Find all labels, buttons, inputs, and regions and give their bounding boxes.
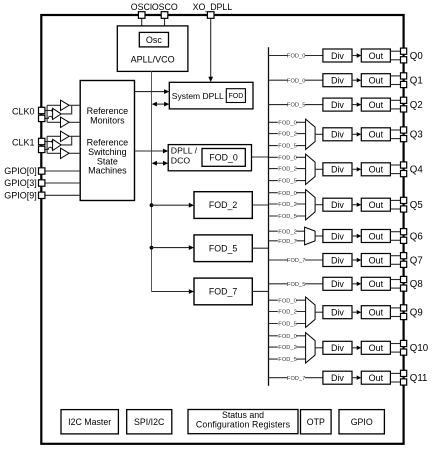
svg-text:Div: Div — [331, 165, 344, 175]
pin Q0+ — [401, 48, 407, 54]
Out box Q5 — [361, 198, 390, 211]
svg-text:FOD_7: FOD_7 — [287, 376, 306, 382]
wire Div to Out Q8 — [352, 283, 357, 285]
svg-text:Div: Div — [331, 231, 344, 241]
pin GPIO[0] — [39, 168, 45, 174]
wire input routing outline — [47, 105, 60, 122]
svg-text:FOD_2: FOD_2 — [278, 310, 297, 316]
pin OSCO — [161, 12, 168, 19]
pin Q1+ — [401, 73, 407, 79]
pin GPIO[3] — [39, 180, 45, 186]
wire Q10 mux input FOD_2 — [269, 346, 306, 348]
Div box Q8 — [323, 277, 352, 290]
wire CLK pin+ to buffers — [45, 141, 53, 143]
wire FOD_5 to bus — [252, 247, 268, 249]
svg-text:Q6: Q6 — [410, 231, 423, 242]
wire FOD_2 to bus — [252, 204, 268, 206]
wire bidirectional DPLL/DCO — [154, 162, 164, 164]
svg-text:Div: Div — [331, 279, 344, 289]
svg-text:Q7: Q7 — [410, 255, 423, 266]
Div box Q6 — [323, 230, 352, 243]
svg-text:Out: Out — [369, 200, 384, 210]
wire reference to DPLL/DCO — [135, 150, 164, 152]
wire Q4 mux input FOD_2 — [269, 168, 306, 170]
pin Q10+ — [401, 340, 407, 346]
pin Q5+ — [401, 197, 407, 203]
wire Out to pins Q9 — [390, 307, 400, 309]
svg-text:FOD_0: FOD_0 — [278, 155, 297, 161]
svg-text:FOD_7: FOD_7 — [209, 287, 237, 297]
wire reference to System DPLL — [135, 91, 165, 93]
svg-text:Div: Div — [331, 100, 344, 110]
pin XO_DPLL — [207, 12, 214, 19]
pin GPIO[9] — [39, 192, 45, 198]
wire top buffer out — [69, 104, 80, 106]
wire Div to Out Q1 — [352, 79, 357, 81]
Div box Q2 — [323, 98, 352, 111]
wire APLL output vertical — [151, 71, 153, 291]
svg-text:Out: Out — [369, 100, 384, 110]
svg-text:Out: Out — [369, 373, 384, 383]
net label FOD_7 for Q6 — [278, 237, 297, 244]
Div box Q11 — [323, 371, 352, 384]
net label FOD_0 for Q1 — [288, 77, 306, 84]
wire Out to pins Q3 — [390, 129, 400, 131]
OTP box — [301, 410, 332, 434]
svg-text:Q2: Q2 — [410, 100, 423, 111]
wire top buffer out — [69, 135, 80, 137]
pin Q11+ — [401, 370, 407, 376]
net label FOD_0 for Q4 — [278, 154, 297, 161]
svg-text:FOD_2: FOD_2 — [278, 202, 297, 208]
buffer triangle middle — [53, 139, 62, 150]
pin Q4+ — [401, 162, 407, 168]
wire GPIO[0] — [45, 170, 81, 172]
net label FOD_2 for Q3 — [278, 130, 297, 137]
svg-text:GPIO: GPIO — [351, 417, 373, 427]
svg-text:OSCI: OSCI — [131, 2, 153, 12]
wire Q0 source — [269, 55, 323, 57]
Out box Q8 — [361, 277, 390, 290]
wire mux Q5 to Div — [315, 204, 323, 206]
Div box Q0 — [323, 49, 352, 62]
wire GPIO[9] — [45, 194, 81, 196]
svg-text:FOD_0: FOD_0 — [278, 120, 297, 126]
svg-text:Q8: Q8 — [410, 279, 423, 290]
wire Div to Out Q10 — [352, 347, 357, 349]
wire Q8 source — [269, 283, 323, 285]
svg-text:Div: Div — [331, 373, 344, 383]
svg-text:FOD_0: FOD_0 — [278, 298, 297, 304]
mux Q6 — [305, 227, 316, 245]
pin Q8+ — [401, 276, 407, 282]
wire Q4 mux input FOD_5 — [269, 180, 306, 182]
GPIO box — [339, 410, 384, 434]
wire Out to pins Q1 — [390, 75, 400, 77]
Div box Q1 — [323, 74, 352, 87]
wire Out to pins Q11 — [390, 372, 400, 374]
wire branch to FOD_2 — [152, 204, 190, 206]
wire FOD distribution bus — [268, 47, 270, 386]
svg-text:Div: Div — [331, 130, 344, 140]
Div box Q10 — [323, 341, 352, 354]
Out box Q4 — [361, 163, 390, 176]
pin Q11- — [401, 379, 407, 385]
svg-text:DCO: DCO — [171, 155, 191, 165]
svg-text:FOD_7: FOD_7 — [278, 239, 297, 245]
wire Q10 mux input FOD_5 — [269, 358, 306, 360]
wire Out to pins Q7 — [390, 255, 400, 257]
Out box Q3 — [361, 128, 390, 141]
wire bidirectional System DPLL — [154, 103, 165, 105]
svg-text:FOD_0: FOD_0 — [287, 78, 306, 84]
wire mux Q3 to Div — [315, 133, 323, 135]
svg-text:APLL/VCO: APLL/VCO — [131, 54, 175, 64]
svg-text:Out: Out — [369, 231, 384, 241]
svg-text:Div: Div — [331, 308, 344, 318]
wire Q5 mux input FOD_2 — [269, 203, 306, 205]
Out box Q6 — [361, 230, 390, 243]
svg-text:Q5: Q5 — [410, 200, 423, 211]
pin Q6- — [401, 237, 407, 243]
svg-text:Q10: Q10 — [410, 343, 429, 354]
wire Q10 mux input FOD_0 — [269, 335, 306, 337]
svg-text:OSCO: OSCO — [152, 2, 178, 12]
net label FOD_7 for Q11 — [288, 374, 306, 381]
svg-text:CLK0: CLK0 — [12, 106, 35, 116]
junction dot FOD_2 branch — [150, 203, 154, 207]
svg-text:FOD: FOD — [229, 93, 244, 100]
pin Q2+ — [401, 97, 407, 103]
Div box Q5 — [323, 198, 352, 211]
buffer triangle top — [61, 131, 70, 141]
svg-text:Monitors: Monitors — [90, 116, 125, 126]
svg-text:Configuration Registers: Configuration Registers — [196, 419, 291, 429]
svg-text:Out: Out — [369, 279, 384, 289]
FOD_2 box — [194, 192, 252, 219]
Out box Q7 — [361, 254, 390, 267]
svg-text:FOD_2: FOD_2 — [209, 200, 237, 210]
net label FOD_0 for Q9 — [278, 297, 297, 304]
svg-text:GPIO[0]: GPIO[0] — [4, 166, 37, 176]
svg-text:Div: Div — [331, 343, 344, 353]
buffer triangle top — [61, 100, 70, 110]
svg-text:FOD_0: FOD_0 — [209, 152, 237, 162]
wire GPIO[3] — [45, 182, 81, 184]
pin CLK1+ — [39, 138, 45, 144]
wire Out to pins Q6 — [390, 231, 400, 233]
wire Out to pins Q0 — [390, 50, 400, 52]
wire mux Q6 to Div — [315, 235, 323, 237]
wire Q7 source — [269, 259, 323, 261]
wire Q3 mux input FOD_5 — [269, 145, 306, 147]
mux Q5 — [306, 190, 316, 220]
svg-text:GPIO[3]: GPIO[3] — [4, 178, 37, 188]
Out box Q9 — [361, 306, 390, 319]
svg-text:Div: Div — [331, 255, 344, 265]
net label FOD_2 for Q4 — [278, 165, 297, 172]
net label FOD_2 for Q5 — [278, 201, 297, 208]
wire Q3 mux input FOD_2 — [269, 133, 306, 135]
pin Q3+ — [401, 127, 407, 133]
pin Q3- — [401, 136, 407, 142]
wire Div to Out Q3 — [352, 133, 357, 135]
pin Q7+ — [401, 253, 407, 259]
net label FOD_7 for Q7 — [288, 257, 306, 264]
svg-text:FOD_5: FOD_5 — [287, 103, 306, 109]
svg-text:Div: Div — [331, 51, 344, 61]
svg-text:Out: Out — [369, 255, 384, 265]
pin Q8- — [401, 285, 407, 291]
net label FOD_0 for Q10 — [278, 332, 297, 339]
svg-text:I2C Master: I2C Master — [68, 417, 111, 427]
FOD_7 box — [194, 278, 252, 305]
svg-text:Out: Out — [369, 130, 384, 140]
junction dot input — [51, 140, 54, 143]
pin Q4- — [401, 171, 407, 177]
wire XO_DPLL to System DPLL — [210, 18, 212, 81]
APLL/VCO box — [117, 26, 188, 72]
svg-text:FOD_5: FOD_5 — [278, 144, 297, 150]
pin Q7- — [401, 261, 407, 267]
svg-text:FOD_0: FOD_0 — [278, 191, 297, 197]
wire Div to Out Q4 — [352, 168, 357, 170]
mux Q4 — [306, 154, 316, 184]
svg-text:Out: Out — [369, 76, 384, 86]
wire Div to Out Q6 — [352, 235, 357, 237]
mux Q10 — [306, 333, 316, 363]
net label FOD_0 for Q5 — [278, 189, 297, 196]
wire bottom buffer out — [69, 152, 80, 154]
svg-text:FOD_5: FOD_5 — [287, 282, 306, 288]
wire CLK pin- with crossover hop — [45, 116, 53, 118]
svg-text:Div: Div — [331, 200, 344, 210]
pin OSCI — [138, 12, 145, 19]
pin CLK0- — [39, 115, 45, 121]
wire middle buffer out — [61, 105, 71, 114]
svg-text:FOD_7: FOD_7 — [287, 258, 306, 264]
svg-text:Out: Out — [369, 51, 384, 61]
svg-text:Q11: Q11 — [410, 373, 428, 384]
buffer triangle bottom — [61, 117, 70, 127]
wire Q5 mux input FOD_5 — [269, 215, 306, 217]
I2C Master box — [61, 410, 118, 434]
wire FOD_0 to bus — [252, 156, 269, 158]
wire Out to pins Q2 — [390, 99, 400, 101]
Status and Configuration Registers box — [188, 410, 298, 434]
wire Out to pins Q8 — [390, 279, 400, 281]
svg-text:XO_DPLL: XO_DPLL — [193, 2, 233, 12]
pin Q6+ — [401, 229, 407, 235]
Div box Q3 — [323, 128, 352, 141]
svg-text:FOD_5: FOD_5 — [278, 322, 297, 328]
FOD box inside System DPLL — [226, 89, 245, 103]
svg-text:Out: Out — [369, 308, 384, 318]
pin Q9- — [401, 313, 407, 319]
svg-text:Q9: Q9 — [410, 308, 423, 319]
mux Q9 — [306, 297, 316, 327]
svg-text:System DPLL: System DPLL — [172, 91, 224, 101]
net label FOD_5 for Q4 — [278, 177, 297, 184]
svg-text:OTP: OTP — [307, 417, 325, 427]
net label FOD_5 for Q2 — [288, 101, 306, 108]
wire Div to Out Q9 — [352, 311, 357, 313]
svg-text:FOD_5: FOD_5 — [278, 357, 297, 363]
wire input routing outline — [47, 136, 60, 153]
buffer triangle bottom — [61, 148, 70, 158]
pin Q0- — [401, 57, 407, 63]
wire Out to pins Q4 — [390, 164, 400, 166]
svg-text:FOD_0: FOD_0 — [287, 54, 306, 60]
svg-text:CLK1: CLK1 — [12, 137, 35, 147]
Out box Q11 — [361, 371, 390, 384]
System DPLL box — [169, 82, 253, 109]
svg-text:Q4: Q4 — [410, 165, 424, 176]
net label FOD_5 for Q8 — [288, 280, 306, 287]
svg-text:FOD_2: FOD_2 — [278, 132, 297, 138]
wire Q9 mux input FOD_2 — [269, 311, 306, 313]
pin CLK1- — [39, 146, 45, 152]
net label FOD_2 for Q9 — [278, 308, 297, 315]
wire OSCI to Osc — [141, 18, 143, 32]
net label FOD_0 for Q0 — [288, 52, 306, 59]
pin CLK0+ — [39, 107, 45, 113]
wire Div to Out Q2 — [352, 104, 357, 106]
wire Q5 mux input FOD_0 — [269, 192, 306, 194]
wire branch to FOD_7 — [152, 291, 190, 293]
net label FOD_0 for Q3 — [278, 119, 297, 126]
wire Q3 mux input FOD_0 — [269, 121, 306, 123]
Div box Q7 — [323, 254, 352, 267]
wire Out to pins Q10 — [390, 343, 400, 345]
wire CLK pin- with crossover hop — [45, 147, 53, 149]
net label FOD_5 for Q3 — [278, 142, 297, 149]
svg-text:FOD_2: FOD_2 — [278, 345, 297, 351]
Out box Q10 — [361, 341, 390, 354]
net label FOD_2 for Q10 — [278, 344, 297, 351]
svg-text:GPIO[9]: GPIO[9] — [4, 191, 37, 201]
pin Q1- — [401, 81, 407, 87]
FOD_5 box — [194, 235, 252, 262]
svg-text:Q3: Q3 — [410, 130, 423, 141]
wire Q4 mux input FOD_0 — [269, 156, 306, 158]
svg-text:Q1: Q1 — [410, 76, 423, 87]
net label FOD_5 for Q5 — [278, 213, 297, 220]
Div box Q9 — [323, 306, 352, 319]
wire Div to Out Q0 — [352, 55, 357, 57]
wire Q6 mux input FOD_2 — [269, 230, 305, 232]
chip outer border — [41, 15, 403, 444]
wire Q1 source — [269, 79, 323, 81]
Reference Monitors / Switching box — [80, 81, 134, 201]
net label FOD_5 for Q9 — [278, 320, 297, 327]
FOD_0 box — [202, 149, 245, 167]
mux Q3 — [306, 119, 316, 149]
wire Div to Out Q11 — [352, 377, 357, 379]
wire Div to Out Q5 — [352, 204, 357, 206]
net label FOD_5 for Q10 — [278, 356, 297, 363]
wire middle buffer out — [61, 136, 71, 145]
wire mux Q10 to Div — [315, 347, 323, 349]
buffer triangle middle — [53, 108, 62, 119]
net label FOD_2 for Q6 — [278, 228, 297, 235]
svg-text:Out: Out — [369, 343, 384, 353]
svg-text:Machines: Machines — [88, 166, 127, 176]
svg-text:FOD_5: FOD_5 — [209, 243, 237, 253]
wire CLK pin+ to buffers — [45, 110, 53, 112]
wire Div to Out Q7 — [352, 259, 357, 261]
svg-text:FOD_0: FOD_0 — [278, 334, 297, 340]
wire mux Q4 to Div — [315, 168, 323, 170]
Div box Q4 — [323, 163, 352, 176]
wire mux Q9 to Div — [315, 311, 323, 313]
wire Out to pins Q5 — [390, 199, 400, 201]
svg-text:FOD_5: FOD_5 — [278, 179, 297, 185]
pin Q5- — [401, 206, 407, 212]
wire FOD_7 to bus — [252, 290, 268, 292]
svg-text:DPLL /: DPLL / — [171, 145, 198, 155]
SPI/I2C box — [127, 410, 172, 434]
pin Q10- — [401, 349, 407, 355]
wire Q11 source — [269, 377, 323, 379]
Out box Q0 — [361, 49, 390, 62]
junction dot input — [51, 109, 54, 112]
Osc box — [139, 32, 168, 47]
wire branch to FOD_5 — [152, 247, 190, 249]
wire Q2 source — [269, 104, 323, 106]
pin Q9+ — [401, 305, 407, 311]
wire OSCO to Osc — [164, 18, 166, 32]
junction dot FOD_5 branch — [150, 246, 154, 250]
DPLL/DCO box — [168, 145, 251, 171]
svg-text:Out: Out — [369, 165, 384, 175]
wire Q6 mux input FOD_7 — [269, 240, 305, 242]
wire Q9 mux input FOD_5 — [269, 323, 306, 325]
svg-text:Osc: Osc — [146, 35, 163, 45]
svg-text:Div: Div — [331, 76, 344, 86]
wire Q9 mux input FOD_0 — [269, 299, 306, 301]
pin Q2- — [401, 106, 407, 112]
svg-text:FOD_2: FOD_2 — [278, 229, 297, 235]
wire bottom buffer out — [69, 121, 80, 123]
svg-text:Q0: Q0 — [410, 51, 424, 62]
svg-text:FOD_5: FOD_5 — [278, 214, 297, 220]
Out box Q2 — [361, 98, 390, 111]
svg-text:SPI/I2C: SPI/I2C — [134, 417, 165, 427]
Out box Q1 — [361, 74, 390, 87]
svg-text:FOD_2: FOD_2 — [278, 167, 297, 173]
